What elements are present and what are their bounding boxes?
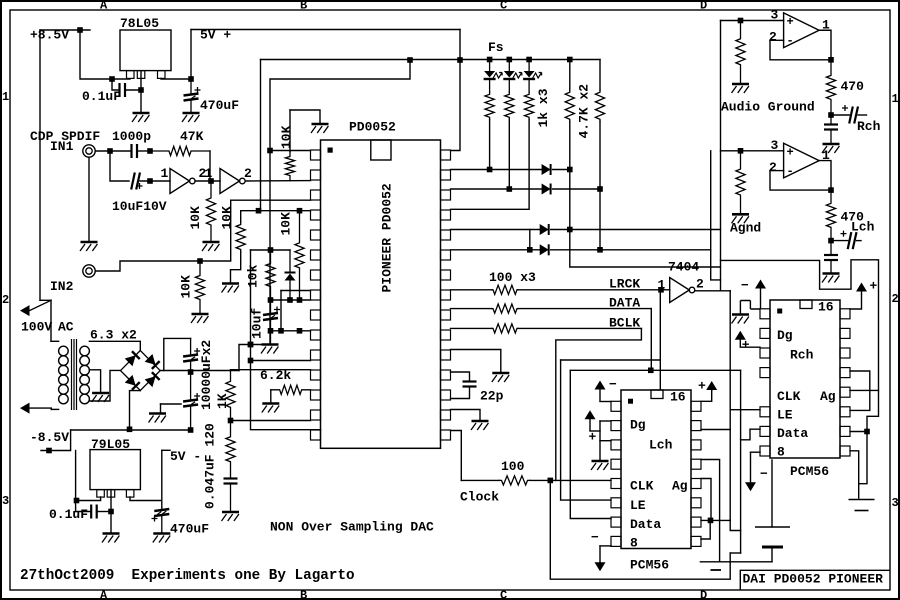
transformer T1 — [59, 339, 90, 410]
svg-text:Clock: Clock — [460, 490, 499, 505]
capacitor C1 0.1uF — [120, 83, 126, 97]
wire data drop — [740, 370, 742, 553]
wire — [508, 60, 510, 72]
wire pin8R — [850, 451, 859, 484]
junction — [228, 418, 234, 424]
label Agnd — [730, 221, 761, 236]
resistor 10K — [285, 152, 294, 181]
junction — [147, 148, 153, 154]
wire — [190, 101, 192, 112]
label pin 1 — [161, 166, 169, 181]
wire — [551, 229, 721, 231]
wire IN2 to pin3 — [95, 200, 310, 271]
label IN1 — [50, 139, 74, 154]
wire pin11R — [451, 350, 501, 373]
wire — [830, 130, 832, 143]
LED 2 — [503, 71, 522, 79]
wire — [569, 60, 571, 91]
svg-text:−: − — [760, 467, 768, 482]
svg-text:5V +: 5V + — [200, 28, 231, 43]
svg-text:LE: LE — [630, 498, 646, 513]
wire — [528, 80, 530, 93]
svg-text:-8.5V: -8.5V — [30, 430, 69, 445]
svg-text:BCLK: BCLK — [609, 316, 640, 331]
svg-text:0.1uF: 0.1uF — [49, 507, 88, 522]
label 79L05 — [91, 437, 130, 452]
label 22p — [480, 389, 504, 404]
label 470 — [841, 79, 865, 94]
wire — [451, 308, 493, 310]
ground — [102, 534, 120, 543]
regulator 78L05 — [120, 30, 171, 78]
wire pin7R — [701, 519, 730, 521]
wire 7404 output — [695, 290, 730, 292]
svg-text:100: 100 — [501, 459, 525, 474]
wire pin3R row — [451, 188, 542, 190]
wire 5V to PD0052 pin1R — [451, 30, 461, 151]
label 10000uFx2 — [199, 340, 214, 410]
svg-text:4.7K x2: 4.7K x2 — [577, 84, 592, 139]
svg-text:Fs: Fs — [488, 40, 504, 55]
wire 5V- riser — [161, 450, 163, 509]
wire — [661, 289, 670, 291]
wire row4 riser — [711, 151, 721, 280]
wire — [190, 79, 192, 93]
wire — [140, 180, 170, 182]
wire — [270, 300, 272, 313]
resistor 10K to ground — [195, 261, 204, 314]
wire — [289, 281, 291, 301]
wire output — [819, 161, 831, 191]
label 10uF10V — [112, 199, 167, 214]
svg-text:10K: 10K — [220, 206, 235, 230]
wire pin5R Ag — [850, 389, 879, 391]
label Lch — [851, 220, 875, 235]
label + — [742, 338, 750, 353]
label footer note — [20, 568, 355, 584]
svg-text:1k x3: 1k x3 — [536, 88, 551, 127]
label 6.3 x2 — [90, 328, 137, 343]
wire primary top — [51, 340, 59, 342]
junction — [248, 342, 254, 348]
svg-text:CLK: CLK — [630, 479, 654, 494]
label pin 2 — [199, 166, 207, 181]
supply arrow minus — [595, 562, 606, 571]
label pin 2 — [696, 277, 704, 292]
ground near R-PCM — [740, 301, 760, 314]
wire pin2R to 7404 — [701, 429, 730, 431]
svg-text:22p: 22p — [480, 389, 504, 404]
LED 3 — [523, 71, 542, 79]
svg-text:10000uFx2: 10000uFx2 — [199, 340, 214, 410]
junction — [567, 57, 573, 63]
svg-text:NON Over Sampling DAC: NON Over Sampling DAC — [270, 520, 434, 535]
svg-text:79L05: 79L05 — [91, 437, 130, 452]
label 470 — [841, 209, 865, 224]
resistor 4.7K — [565, 90, 574, 122]
svg-text:8: 8 — [630, 536, 638, 551]
junction — [109, 76, 115, 82]
arrow AC input 2 — [20, 403, 51, 414]
junction — [188, 76, 194, 82]
wire feedback — [770, 171, 831, 191]
ground — [202, 242, 220, 251]
svg-text:A: A — [100, 589, 108, 600]
wire — [551, 249, 711, 251]
svg-text:D: D — [700, 0, 707, 13]
junction — [297, 328, 303, 334]
wire — [599, 546, 601, 562]
label + — [698, 379, 706, 394]
label PCM56 — [630, 558, 669, 573]
wire -8.5V rail — [71, 429, 191, 431]
svg-text:2: 2 — [2, 293, 9, 307]
svg-text:10K: 10K — [279, 212, 294, 236]
label Lch — [649, 438, 673, 453]
wire — [40, 299, 51, 301]
wire pin7R — [850, 431, 867, 433]
label AC — [58, 320, 74, 335]
svg-text:8: 8 — [777, 445, 785, 460]
junction — [297, 208, 303, 214]
junction — [268, 297, 274, 303]
label +8.5V — [30, 28, 69, 43]
wire pin5R — [701, 479, 711, 521]
svg-text:+: + — [698, 379, 706, 394]
wire clock to CLK pin — [530, 479, 611, 481]
IC U3 PCM56 Lch — [611, 390, 701, 549]
label LRCK — [609, 277, 640, 292]
wire Rch output — [858, 114, 867, 116]
wire BCLK loop down — [556, 328, 642, 480]
junction — [738, 148, 744, 154]
junction — [648, 368, 654, 374]
wire — [529, 230, 531, 250]
label - — [591, 530, 599, 545]
wire primary bottom — [51, 408, 58, 410]
junction — [208, 178, 214, 184]
label 0.047uF 120 — [203, 423, 218, 509]
svg-text:10uf: 10uf — [250, 308, 265, 339]
svg-text:10K: 10K — [179, 275, 194, 299]
inverter U1A — [170, 169, 195, 194]
svg-text:47K: 47K — [180, 129, 204, 144]
label DATA — [609, 296, 640, 311]
wire right rail — [721, 260, 879, 432]
label pin 1 — [658, 278, 666, 293]
wire to signal ground — [859, 432, 867, 499]
wire — [553, 188, 600, 190]
wire — [251, 249, 291, 251]
svg-text:78L05: 78L05 — [120, 16, 159, 31]
wire pin11 — [251, 360, 311, 362]
label CLK — [777, 389, 801, 404]
label Dg — [630, 418, 646, 433]
IC U2 PD0052 — [311, 140, 451, 448]
junction — [278, 328, 284, 334]
wire — [270, 331, 272, 344]
wire inverter out to pin2 — [246, 180, 311, 182]
junction — [188, 369, 194, 375]
wire LED2 column — [508, 120, 510, 189]
label 1k x3 — [536, 88, 551, 127]
supply arrow minus — [745, 482, 756, 491]
label + — [870, 279, 878, 294]
polarized capacitor 470uF — [152, 509, 170, 522]
svg-text:1K: 1K — [215, 393, 230, 409]
svg-text:Lch: Lch — [649, 438, 673, 453]
wire rail to pin16 — [251, 250, 321, 430]
label Rch — [857, 119, 881, 134]
wire — [161, 517, 163, 533]
wire pin1R — [850, 295, 862, 309]
wire — [209, 151, 211, 181]
wire to pin3L — [740, 346, 760, 348]
svg-text:2: 2 — [696, 277, 704, 292]
svg-text:+: + — [742, 338, 750, 353]
svg-text:DAI PD0052 PIONEER: DAI PD0052 PIONEER — [743, 572, 884, 587]
wire left rail — [269, 151, 271, 345]
junction — [507, 186, 513, 192]
junction — [567, 227, 573, 233]
resistor 10K to ground — [206, 181, 215, 242]
wire inverting input — [770, 39, 784, 41]
op-amp U5A — [784, 13, 820, 48]
svg-text:IN2: IN2 — [50, 279, 74, 294]
capacitor 0.1uF — [91, 505, 97, 519]
svg-text:IN1: IN1 — [50, 139, 74, 154]
supply arrow plus — [856, 283, 867, 296]
wire — [270, 390, 272, 403]
wire battery top — [771, 460, 773, 527]
wire LED1 column — [489, 120, 491, 170]
svg-text:Ag: Ag — [820, 389, 836, 404]
svg-text:3: 3 — [892, 496, 899, 510]
resistor 1k — [485, 92, 494, 120]
wire inverting input — [770, 170, 784, 172]
junction — [527, 247, 533, 253]
wire — [160, 404, 162, 413]
wire — [137, 150, 150, 152]
polarized capacitor Rch out — [842, 105, 858, 124]
svg-text:LE: LE — [777, 408, 793, 423]
label 100 x3 — [489, 270, 536, 285]
label pin 2 — [244, 166, 252, 181]
wire — [190, 406, 192, 430]
ground — [222, 284, 240, 293]
wire — [831, 240, 848, 242]
wire 79L05 output — [130, 497, 162, 501]
wire — [231, 252, 241, 282]
supply arrow plus — [585, 410, 596, 431]
inverter U1B — [220, 169, 245, 194]
label 4.7K x2 — [577, 84, 592, 139]
wire pin1 — [270, 150, 311, 152]
wire pin14R — [451, 410, 481, 421]
wire — [75, 451, 77, 512]
svg-text:10k: 10k — [246, 264, 261, 288]
junction — [107, 148, 113, 154]
resistor 10K — [295, 211, 304, 300]
wire feedback — [770, 40, 831, 60]
wire pin15R clock — [451, 431, 462, 481]
wire 78L05 gnd pin — [140, 71, 142, 112]
svg-text:Data: Data — [777, 426, 808, 441]
svg-text:−: − — [741, 278, 749, 293]
wire 79L05 gnd pin — [110, 490, 112, 533]
wire — [830, 261, 832, 273]
resistor to analog ground — [736, 21, 745, 84]
svg-text:Rch: Rch — [857, 119, 881, 134]
wire pin9 — [271, 299, 311, 301]
junction — [597, 186, 603, 192]
wire pin15 — [231, 420, 311, 422]
junction — [457, 57, 463, 63]
svg-text:Rch: Rch — [790, 348, 814, 363]
arrow AC input 1 — [20, 300, 51, 341]
junction — [108, 509, 114, 515]
bridge rectifier — [121, 351, 161, 391]
wire secondary bottom — [89, 370, 120, 401]
resistor 100 LRCK — [492, 285, 518, 294]
svg-text:DATA: DATA — [609, 296, 640, 311]
svg-text:1: 1 — [892, 92, 899, 106]
label 0.1uF — [82, 89, 121, 104]
wire — [750, 452, 752, 483]
label 16 — [670, 390, 686, 405]
label CLK — [630, 479, 654, 494]
svg-text:+: + — [589, 430, 597, 445]
wire to +rail — [239, 345, 262, 371]
junction — [267, 148, 273, 154]
label Dg — [777, 328, 793, 343]
junction — [256, 208, 262, 214]
battery cell — [755, 527, 790, 547]
wire — [451, 327, 493, 329]
wire secondary top — [89, 341, 140, 350]
wire — [95, 150, 110, 152]
label pin 1 — [822, 18, 830, 33]
resistor 100 BCLK — [492, 324, 518, 333]
wire — [461, 479, 499, 481]
label -8.5V — [30, 430, 69, 445]
label CDP SPDIF — [30, 129, 100, 144]
wire to capacitor bank — [164, 338, 191, 370]
wire — [161, 403, 182, 405]
svg-text:16: 16 — [818, 300, 834, 315]
wire — [240, 211, 242, 222]
junction — [487, 57, 493, 63]
svg-text:7404: 7404 — [668, 260, 699, 275]
wire — [831, 114, 849, 116]
svg-text:100 x3: 100 x3 — [489, 270, 536, 285]
label 47K — [180, 129, 204, 144]
diode D3 — [540, 224, 549, 235]
wire — [489, 80, 491, 93]
wire to LE pin — [561, 360, 611, 500]
wire to R-PCM Data — [741, 429, 760, 440]
wire pin4R-pin6R loop — [850, 371, 870, 410]
junction — [548, 478, 554, 484]
junction — [77, 27, 83, 33]
svg-text:−: − — [609, 377, 617, 392]
label - — [760, 467, 768, 482]
wire pin10 — [271, 330, 311, 332]
svg-text:Audio Ground: Audio Ground — [721, 100, 815, 115]
svg-text:+: + — [870, 279, 878, 294]
svg-text:C: C — [500, 589, 507, 600]
resistor 1K — [226, 370, 235, 419]
svg-text:PD0052: PD0052 — [349, 120, 396, 135]
junction — [567, 167, 573, 173]
label + — [589, 430, 597, 445]
wire pin8 — [281, 290, 311, 292]
wire -8.5V down — [41, 430, 71, 451]
label 7404 — [668, 260, 699, 275]
wire — [230, 484, 232, 511]
label Clock — [460, 490, 499, 505]
wire pin8L — [600, 545, 611, 547]
junction — [828, 112, 834, 118]
junction — [197, 258, 203, 264]
junction — [127, 427, 133, 433]
resistor 10k — [236, 222, 245, 252]
wire — [590, 430, 600, 432]
wire — [270, 321, 272, 331]
wire to 78L05 input — [80, 30, 130, 79]
ground — [492, 373, 510, 382]
wire pin2L — [600, 420, 611, 422]
label LE — [630, 498, 646, 513]
wire — [190, 361, 192, 400]
junction — [268, 328, 274, 334]
label pin 1 — [205, 166, 213, 181]
wire — [289, 250, 291, 272]
svg-text:B: B — [300, 0, 307, 13]
junction — [407, 57, 413, 63]
label 10K — [220, 206, 235, 230]
wire audio ground bus — [720, 21, 722, 291]
label Ag — [820, 389, 836, 404]
wire pin8L — [751, 451, 761, 453]
wire Lch output — [857, 240, 862, 242]
svg-text:6.3 x2: 6.3 x2 — [90, 328, 137, 343]
svg-text:1: 1 — [2, 90, 9, 104]
svg-text:B: B — [300, 589, 307, 600]
label - — [711, 569, 722, 571]
junction — [46, 448, 52, 454]
ground — [732, 214, 750, 223]
wire — [570, 230, 721, 268]
junction — [526, 57, 532, 63]
ground — [822, 274, 840, 283]
supply arrow plus — [735, 331, 746, 348]
wire DATA — [518, 308, 651, 310]
wire pin12R — [451, 372, 470, 381]
resistor 1k — [525, 92, 534, 120]
junction — [74, 498, 80, 504]
junction — [658, 287, 664, 293]
wire 5V+ riser — [190, 30, 192, 80]
svg-text:PCM56: PCM56 — [630, 558, 669, 573]
wire pin4R down — [701, 460, 720, 562]
junction — [738, 18, 744, 24]
wire — [599, 122, 601, 250]
ground — [732, 84, 750, 93]
wire — [599, 421, 601, 460]
svg-text:16: 16 — [670, 390, 686, 405]
svg-text:100V: 100V — [21, 320, 52, 335]
